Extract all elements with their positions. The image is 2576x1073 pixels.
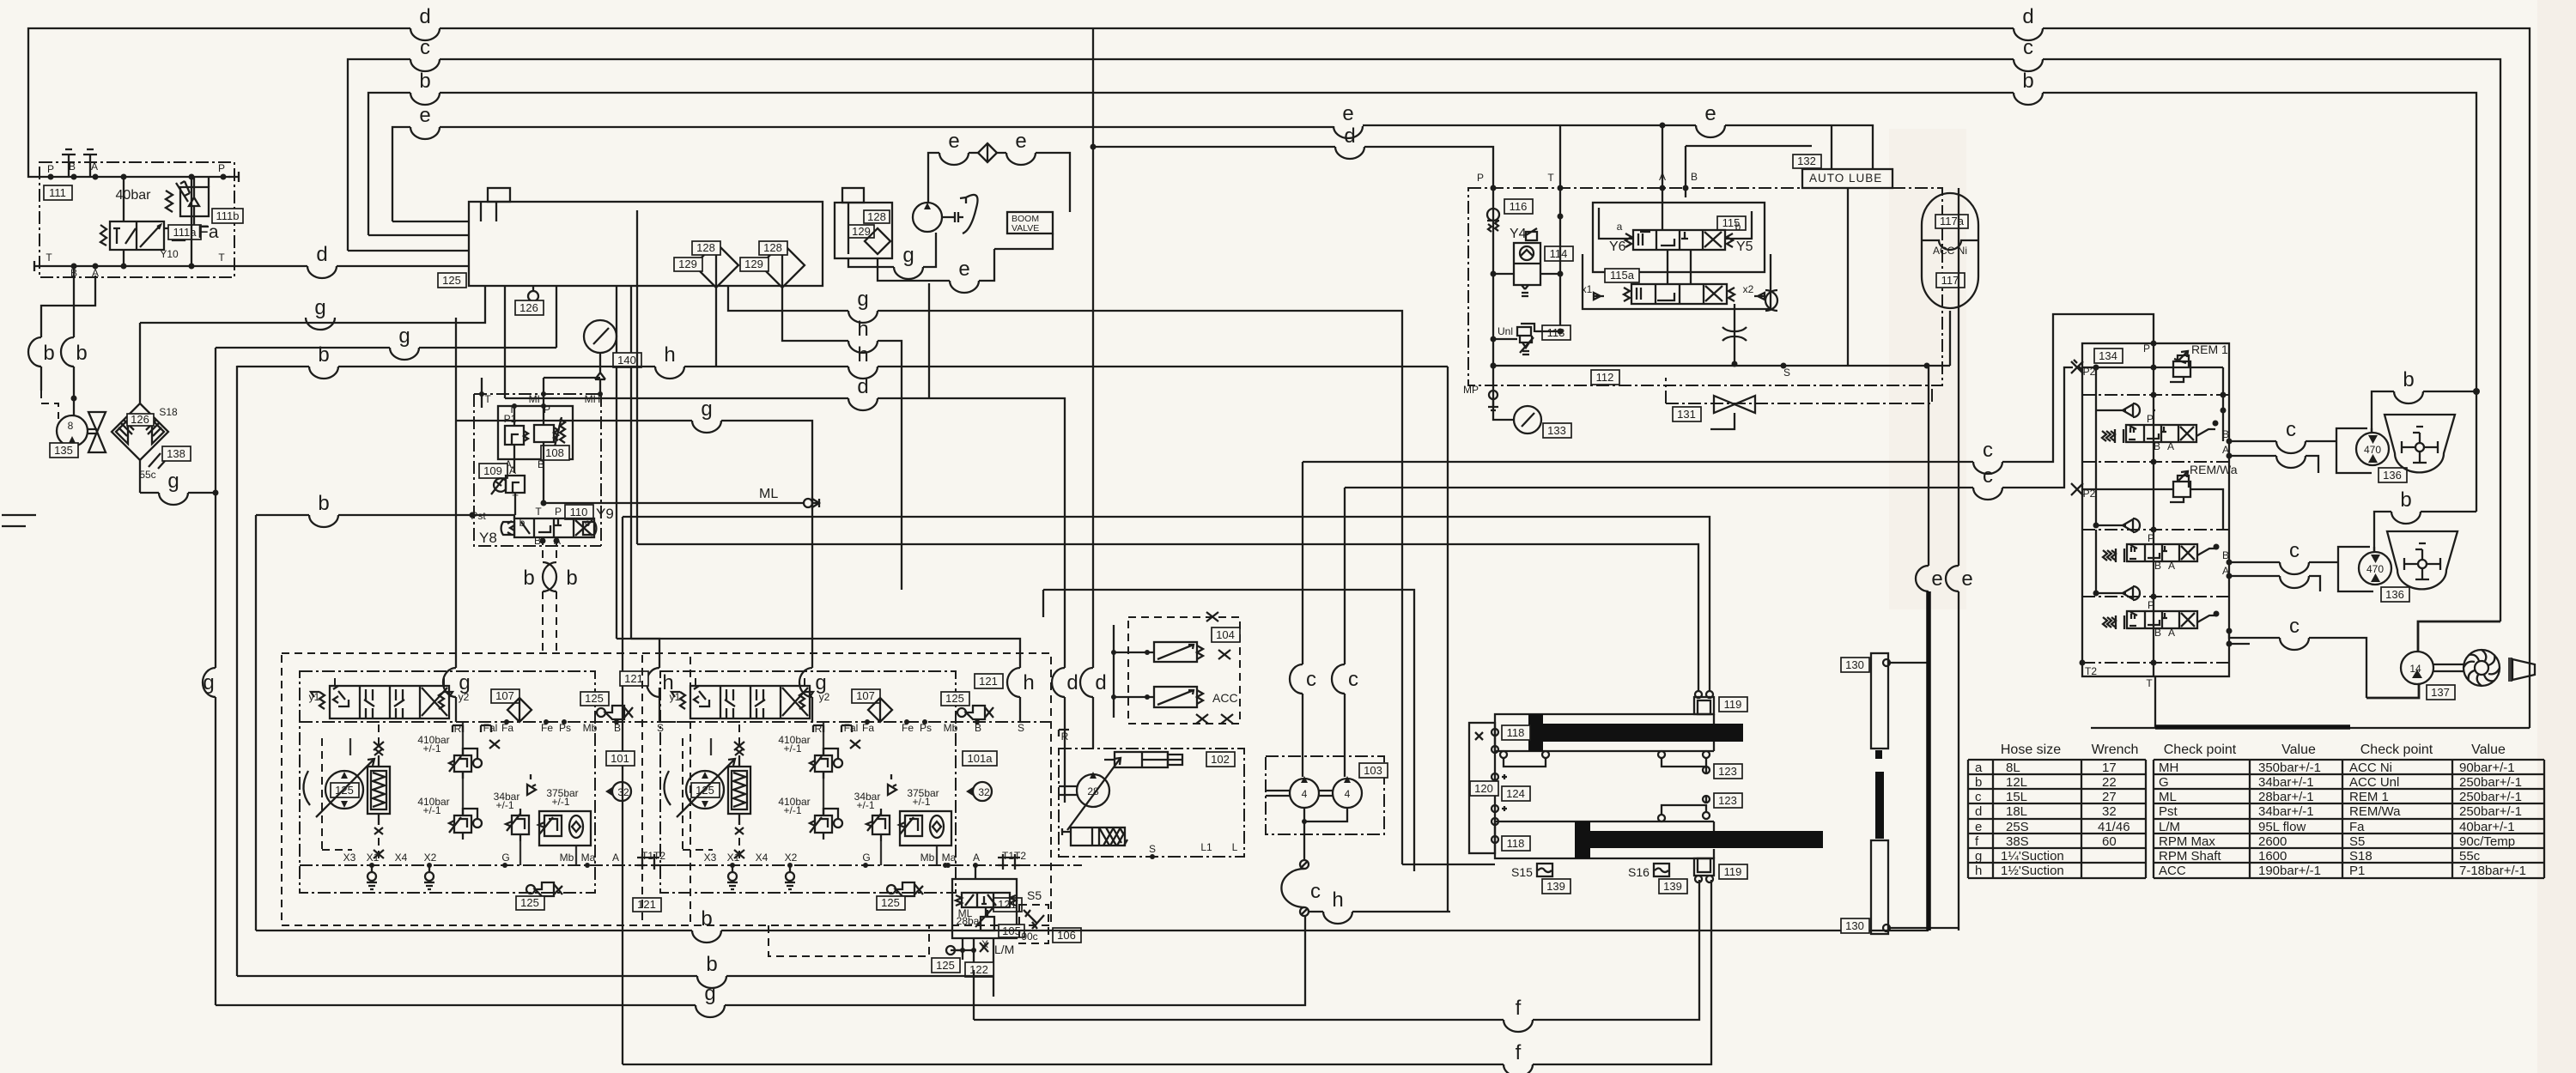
butterfly valve <box>88 412 106 452</box>
svg-text:g: g <box>167 470 179 493</box>
119 fitting top <box>1694 691 1747 714</box>
svg-text:S5: S5 <box>2349 834 2365 849</box>
svg-text:b: b <box>1735 221 1741 233</box>
svg-text:90c: 90c <box>1021 931 1037 943</box>
wire c2 y568 to P2 <box>1345 367 2073 500</box>
valve section 1 <box>2102 413 2219 452</box>
svg-text:104: 104 <box>1216 628 1235 641</box>
svg-text:T: T <box>46 252 52 264</box>
svg-text:130: 130 <box>1845 919 1864 932</box>
wire e below boom valve <box>878 233 1053 293</box>
check valve 116 <box>1487 188 1533 385</box>
wire c vertical to pump4 left <box>1290 462 1316 777</box>
svg-text:34bar+/-1: 34bar+/-1 <box>2258 775 2314 790</box>
svg-text:101a: 101a <box>968 752 993 765</box>
svg-text:B: B <box>2154 560 2161 572</box>
svg-text:b: b <box>701 907 712 931</box>
svg-text:124: 124 <box>1506 787 1525 800</box>
svg-text:34bar+/-1: 34bar+/-1 <box>2258 804 2314 819</box>
svg-text:c: c <box>2023 36 2033 59</box>
svg-text:60: 60 <box>2102 834 2117 849</box>
solenoid valve Y10 111a <box>100 174 219 270</box>
svg-text:4: 4 <box>1345 788 1351 800</box>
svg-text:b: b <box>419 70 430 93</box>
svg-text:e: e <box>1704 102 1716 125</box>
svg-text:T: T <box>2146 677 2153 689</box>
svg-text:c: c <box>420 36 430 59</box>
svg-text:REM 1: REM 1 <box>2191 343 2228 356</box>
svg-text:18L: 18L <box>2006 804 2027 819</box>
svg-text:1600: 1600 <box>2258 849 2287 864</box>
svg-text:P: P <box>1477 172 1484 184</box>
svg-text:a: a <box>1975 761 1983 775</box>
svg-text:b: b <box>566 567 577 590</box>
svg-text:T: T <box>535 506 542 518</box>
svg-text:102: 102 <box>1211 753 1230 766</box>
cylinder 1 (top) <box>1495 714 1743 751</box>
wire from 111 B/A down with b-arcs <box>28 266 95 419</box>
svg-text:h: h <box>664 343 675 367</box>
svg-text:S: S <box>1149 843 1156 855</box>
c wire to motor 14 <box>2227 615 2367 698</box>
svg-text:55c: 55c <box>2459 849 2481 864</box>
svg-text:27: 27 <box>2102 790 2117 804</box>
motor 1 <box>2356 433 2407 482</box>
svg-text:T: T <box>484 393 491 405</box>
svg-text:4: 4 <box>1302 788 1308 800</box>
svg-text:8L: 8L <box>2006 761 2020 775</box>
stubs below block <box>140 286 631 639</box>
page edge stubs <box>2 515 36 526</box>
svg-text:15L: 15L <box>2006 790 2027 804</box>
svg-text:108: 108 <box>545 446 564 459</box>
svg-text:P: P <box>2143 343 2150 355</box>
svg-text:c: c <box>1975 790 1982 804</box>
svg-text:125: 125 <box>442 274 461 287</box>
e heavy columns <box>1916 188 1973 931</box>
wire filter to g-line up <box>139 323 141 403</box>
svg-text:e: e <box>958 258 969 281</box>
svg-text:S18: S18 <box>2349 849 2372 864</box>
svg-text:1¼'Suction: 1¼'Suction <box>2001 849 2064 864</box>
svg-text:109: 109 <box>483 464 502 477</box>
svg-text:L/M: L/M <box>994 943 1014 956</box>
svg-text:b: b <box>706 953 717 976</box>
wire y405 g <box>216 286 556 360</box>
svg-text:c: c <box>1310 880 1321 903</box>
svg-text:116: 116 <box>1510 200 1528 213</box>
wire b-bus <box>368 70 2480 512</box>
svg-text:115a: 115a <box>1610 269 1635 282</box>
gauge 133 <box>1493 385 1571 438</box>
svg-text:123: 123 <box>1718 794 1737 807</box>
svg-text:g: g <box>902 244 914 267</box>
MP port <box>1463 363 1498 411</box>
svg-text:134: 134 <box>2099 349 2117 362</box>
svg-text:S15: S15 <box>1511 865 1533 879</box>
motor 2 b wire <box>2374 488 2476 552</box>
svg-text:P: P <box>47 163 54 175</box>
svg-text:111: 111 <box>49 186 66 199</box>
svg-text:111a: 111a <box>173 226 197 239</box>
wire from AUTO LUBE down <box>1847 188 1849 366</box>
svg-text:h: h <box>857 343 868 367</box>
svg-text:b: b <box>43 342 54 365</box>
svg-text:ACC: ACC <box>2159 864 2186 878</box>
left table <box>1968 760 2146 878</box>
svg-text:T: T <box>1547 172 1554 184</box>
motor 1 b wire <box>2372 368 2476 433</box>
ACC accumulator 117 <box>1922 193 1978 308</box>
svg-text:118: 118 <box>1507 837 1525 850</box>
valve section 2 <box>2103 532 2220 572</box>
svg-text:Y5: Y5 <box>1736 239 1753 254</box>
check valve sec2 <box>2093 462 2141 532</box>
label 111 <box>44 185 72 200</box>
svg-text:c: c <box>1983 464 1993 488</box>
block 101 <box>282 653 690 925</box>
svg-text:VALVE: VALVE <box>1012 223 1039 233</box>
valve 131 <box>1666 378 1932 429</box>
tank 1 <box>2385 415 2455 472</box>
wire MH gauge line <box>482 378 600 408</box>
svg-text:Fa: Fa <box>2349 820 2365 834</box>
svg-text:A: A <box>2168 627 2175 639</box>
check valve sec1 <box>2096 403 2155 417</box>
box 128/129 with filter <box>835 188 892 258</box>
svg-text:132: 132 <box>1797 155 1816 167</box>
svg-text:125: 125 <box>936 959 955 972</box>
svg-text:b: b <box>523 567 534 590</box>
valve 110 Y8 Y9 <box>470 505 614 547</box>
ports above cyl2 <box>1658 793 1742 821</box>
svg-text:470: 470 <box>2364 444 2381 456</box>
)( symbol <box>1765 290 1777 311</box>
svg-text:90c/Temp: 90c/Temp <box>2459 834 2515 849</box>
motor 2 <box>2359 552 2409 602</box>
svg-text:129: 129 <box>852 225 871 238</box>
REM/Wa section <box>2071 463 2238 530</box>
wire f2 y1240 <box>623 880 1711 1073</box>
svg-text:b: b <box>1975 775 1982 790</box>
S15 S16 sensors <box>1511 864 1687 894</box>
svg-text:122: 122 <box>969 963 988 976</box>
check valve sec3 <box>2093 530 2141 600</box>
cone <box>2508 658 2535 682</box>
g-arc on 370 wire <box>306 296 335 330</box>
svg-text:h: h <box>1023 671 1034 694</box>
svg-text:470: 470 <box>2366 563 2384 575</box>
svg-text:250bar+/-1: 250bar+/-1 <box>2459 790 2522 804</box>
svg-text:103: 103 <box>1364 764 1382 777</box>
A/B drop wires <box>1660 123 1813 189</box>
svg-text:Value: Value <box>2471 743 2506 757</box>
valve block 111 dash-dot frame <box>34 161 239 279</box>
svg-text:T2: T2 <box>2085 665 2097 677</box>
svg-text:ACC: ACC <box>1212 691 1238 705</box>
wire y464 <box>505 283 1078 803</box>
svg-text:28bar+/-1: 28bar+/-1 <box>2258 790 2314 804</box>
svg-text:A: A <box>91 161 98 173</box>
svg-text:P: P <box>2148 532 2154 544</box>
svg-text:c: c <box>1983 439 1993 462</box>
svg-text:d: d <box>1975 804 1982 819</box>
120 manifold <box>1469 723 1507 853</box>
svg-text:140: 140 <box>617 354 636 367</box>
svg-text:Check point: Check point <box>2360 743 2433 757</box>
wire b vertical x276 <box>236 366 238 976</box>
svg-text:120: 120 <box>1474 782 1493 795</box>
wire d to 112 block P <box>1093 124 1493 188</box>
wire e-bus <box>392 102 1873 221</box>
svg-text:350bar+/-1: 350bar+/-1 <box>2258 761 2321 775</box>
e diamond e top <box>928 130 1070 212</box>
svg-text:Unl: Unl <box>1498 325 1513 337</box>
svg-text:L/M: L/M <box>2159 820 2180 834</box>
svg-text:131: 131 <box>1677 408 1696 421</box>
small cylinder top <box>1104 752 1182 767</box>
svg-text:g: g <box>314 296 325 319</box>
svg-text:g: g <box>701 397 712 421</box>
svg-text:117: 117 <box>1941 274 1959 287</box>
svg-text:119: 119 <box>1724 865 1742 878</box>
svg-text:138: 138 <box>167 447 185 460</box>
cylinder 2 (bottom) <box>1495 821 1823 858</box>
BOOM VALVE box <box>1007 212 1053 233</box>
svg-text:112: 112 <box>1596 371 1614 384</box>
119 fitting bottom <box>1694 858 1747 882</box>
svg-text:RPM Shaft: RPM Shaft <box>2159 849 2221 864</box>
fan impeller <box>2433 650 2500 686</box>
svg-text:S16: S16 <box>1628 865 1649 879</box>
valve Y4 114 <box>1491 188 1574 339</box>
svg-text:ML: ML <box>759 487 778 501</box>
svg-text:d: d <box>1344 124 1355 148</box>
svg-text:d: d <box>419 5 430 28</box>
svg-text:P: P <box>218 162 225 174</box>
motor 2 wires <box>2222 539 2374 591</box>
ACC drop from S line <box>1781 311 1951 369</box>
svg-text:g: g <box>398 324 410 348</box>
svg-text:111b: 111b <box>216 209 240 222</box>
svg-text:S5: S5 <box>1027 888 1042 902</box>
wire c-bus <box>348 36 2500 621</box>
svg-text:e: e <box>948 130 959 153</box>
wire b1 y1084 <box>256 907 1929 943</box>
svg-text:129: 129 <box>678 258 697 270</box>
svg-text:e: e <box>1961 567 1972 591</box>
svg-text:b: b <box>519 517 526 529</box>
svg-text:Y6: Y6 <box>1609 239 1626 254</box>
svg-text:Value: Value <box>2281 743 2316 757</box>
filter 128/129 left <box>674 241 738 288</box>
svg-text:e: e <box>1015 130 1026 153</box>
svg-text:L: L <box>1232 841 1238 853</box>
inner box P1 108 <box>498 403 573 473</box>
P2 port X <box>2071 360 2223 378</box>
valve 115 Y6 Y5 <box>1599 208 1753 254</box>
svg-text:137: 137 <box>2431 686 2450 699</box>
svg-text:B: B <box>2154 627 2161 639</box>
svg-text:B: B <box>2154 440 2160 452</box>
ports below cyl1 <box>1500 751 1742 801</box>
svg-text:90bar+/-1: 90bar+/-1 <box>2459 761 2515 775</box>
svg-text:Y10: Y10 <box>160 248 179 260</box>
valve 115a <box>1582 269 1765 304</box>
wire y426 long b-line <box>237 343 1950 912</box>
filter 128/129 right <box>740 241 805 288</box>
svg-text:b: b <box>318 492 329 515</box>
svg-text:123: 123 <box>1718 765 1737 778</box>
svg-text:g: g <box>857 288 868 311</box>
svg-text:G: G <box>2159 775 2169 790</box>
svg-text:REM/Wa: REM/Wa <box>2190 463 2238 476</box>
svg-text:126: 126 <box>131 413 149 426</box>
svg-text:130: 130 <box>1845 658 1864 671</box>
svg-text:7-18bar+/-1: 7-18bar+/-1 <box>2459 864 2526 878</box>
svg-text:b: b <box>2403 368 2414 391</box>
svg-text:B: B <box>69 161 76 173</box>
svg-text:41/46: 41/46 <box>2098 820 2130 834</box>
svg-text:h: h <box>1332 888 1343 912</box>
relief valve 40bar + 111b <box>116 177 243 227</box>
svg-text:135: 135 <box>54 444 73 457</box>
b)(b arcs below 110 <box>523 537 577 653</box>
svg-text:P: P <box>2147 413 2154 425</box>
svg-text:55c: 55c <box>139 469 155 481</box>
wire h from diamond1 down <box>716 286 1402 864</box>
flow restrictor <box>1722 304 1747 367</box>
svg-text:S18: S18 <box>159 406 178 418</box>
svg-text:133: 133 <box>1547 424 1566 437</box>
AUTO LUBE 132 <box>1793 155 1893 188</box>
svg-text:A: A <box>2167 440 2174 452</box>
wire y685 <box>1043 590 1414 871</box>
svg-text:REM 1: REM 1 <box>2349 790 2389 804</box>
block 112 dash-dot frame <box>1468 171 1942 385</box>
svg-text:128: 128 <box>867 210 886 223</box>
svg-text:139: 139 <box>1663 880 1682 893</box>
valve section 3 <box>2103 599 2220 639</box>
svg-text:P1: P1 <box>2349 864 2365 878</box>
check valve 126 below block <box>515 291 544 315</box>
REM 1 relief <box>2170 343 2228 382</box>
h wire bottom <box>1309 888 1450 924</box>
svg-text:MH: MH <box>2159 761 2178 775</box>
c-arc loop at 1519 bottom <box>1281 858 1321 916</box>
pump 8 <box>50 415 88 458</box>
svg-text:250bar+/-1: 250bar+/-1 <box>2459 804 2522 819</box>
svg-text:L1: L1 <box>1200 841 1212 853</box>
wire f1 y1188 <box>974 880 1699 1032</box>
valve P1 <box>505 426 524 445</box>
svg-text:118: 118 <box>1507 726 1525 739</box>
pump 28 <box>1059 758 1121 830</box>
main manifold block <box>469 188 823 286</box>
motor 14 <box>2366 621 2500 700</box>
svg-text:b: b <box>76 342 87 365</box>
svg-text:RPM Max: RPM Max <box>2159 834 2215 849</box>
pilot block dash-dot frame <box>474 391 603 546</box>
svg-text:17: 17 <box>2102 761 2117 775</box>
svg-text:129: 129 <box>744 258 763 270</box>
wire y634 <box>637 286 1698 691</box>
svg-text:139: 139 <box>1546 880 1565 893</box>
svg-text:h: h <box>857 318 868 341</box>
svg-text:x1: x1 <box>1582 283 1593 295</box>
wire filter bottom to g run <box>140 348 219 1005</box>
svg-text:c: c <box>1306 668 1316 691</box>
valve 109 <box>479 464 544 515</box>
svg-text:a: a <box>1617 221 1623 233</box>
wire g y1171 <box>216 916 1305 1017</box>
svg-text:e: e <box>419 104 430 127</box>
svg-text:d: d <box>1066 671 1078 694</box>
svg-text:22: 22 <box>2102 775 2117 790</box>
svg-text:Check point: Check point <box>2164 743 2237 757</box>
svg-text:e: e <box>1975 820 1982 834</box>
svg-text:Wrench: Wrench <box>2092 743 2139 757</box>
svg-text:P: P <box>555 506 562 518</box>
pump circle boom <box>913 195 978 233</box>
svg-text:g: g <box>704 982 715 1005</box>
svg-text:Y9: Y9 <box>596 506 614 522</box>
svg-text:ACC Ni: ACC Ni <box>1933 245 1967 257</box>
wire y1007 from 1633 <box>1402 864 1495 865</box>
svg-text:121: 121 <box>979 675 998 688</box>
svg-text:d: d <box>316 243 327 266</box>
svg-text:h: h <box>1975 864 1982 878</box>
svg-text:b: b <box>318 343 329 367</box>
svg-text:REM/Wa: REM/Wa <box>2349 804 2401 819</box>
svg-text:2600: 2600 <box>2258 834 2287 849</box>
stubs entering block left: e,b,c <box>348 221 469 251</box>
block 101a <box>769 925 929 956</box>
svg-text:12L: 12L <box>2006 775 2027 790</box>
svg-text:d: d <box>857 375 868 398</box>
svg-text:190bar+/-1: 190bar+/-1 <box>2258 864 2321 878</box>
svg-text:X: X <box>981 938 988 950</box>
svg-text:136: 136 <box>2385 588 2404 601</box>
dash-dot box 102 <box>1059 730 1244 857</box>
svg-text:119: 119 <box>1724 698 1742 711</box>
wire b2 y1137 <box>237 953 993 988</box>
tank 2 <box>2387 531 2458 589</box>
svg-text:Y8: Y8 <box>479 530 497 546</box>
svg-text:A: A <box>2168 560 2175 572</box>
drain symbols above 111 <box>62 149 97 177</box>
right table <box>2154 760 2544 878</box>
svg-text:38S: 38S <box>2006 834 2029 849</box>
svg-text:Pst: Pst <box>2159 804 2178 819</box>
dashed box 104 <box>1111 612 1240 724</box>
svg-text:g: g <box>1975 849 1982 864</box>
svg-text:ML: ML <box>2159 790 2177 804</box>
svg-text:e: e <box>1931 567 1942 591</box>
wire h from diamond2 down <box>782 288 902 590</box>
svg-text:8: 8 <box>68 420 74 432</box>
svg-text:Fa: Fa <box>197 222 219 242</box>
inner rect around 115 valves <box>1583 188 1771 309</box>
svg-text:c: c <box>585 517 590 529</box>
svg-text:d: d <box>2022 5 2033 28</box>
svg-text:Hose size: Hose size <box>2001 743 2061 757</box>
svg-text:AUTO LUBE: AUTO LUBE <box>1809 172 1882 185</box>
wire g into 101a R <box>456 397 827 722</box>
svg-text:25S: 25S <box>2006 820 2029 834</box>
svg-text:40bar+/-1: 40bar+/-1 <box>2459 820 2515 834</box>
valve block 105 <box>952 865 1024 938</box>
